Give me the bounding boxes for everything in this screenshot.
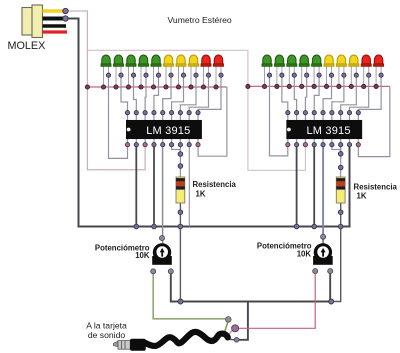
node: jack tip (green) terminal — [226, 317, 232, 323]
node: MOLEX 12V tap — [63, 8, 68, 13]
node: left pot leg A — [151, 269, 156, 274]
wire: IC pin stubs — [127, 113, 129, 121]
LED D19 (red) right bank — [361, 55, 371, 86]
wire: left LED2 cathode to left IC top pin — [121, 75, 128, 113]
wire: green pigtail at jack cable end — [224, 321, 229, 336]
node: right pot wiper — [321, 234, 326, 239]
wire: left pot right leg to lower ground rail — [171, 273, 181, 302]
svg-text:1K: 1K — [196, 190, 206, 199]
wire: left resistor lower lead to ground bus and down — [179, 203, 181, 302]
wire: left audio channel (green) from jack tip to left pot — [153, 273, 227, 319]
LED D1 (green) left bank — [101, 55, 111, 87]
wire: right IC pin 9 mode to bus right end — [358, 86, 390, 156]
wire: right LED9 cathode to right IC top pin — [349, 75, 368, 113]
op-amp/IC U1 LM3915 left — [126, 120, 201, 139]
cable to sound card — [146, 332, 228, 346]
svg-text:Resistencia: Resistencia — [354, 183, 398, 192]
wire: left LED9 cathode to left IC top pin — [189, 75, 208, 113]
node: right pot leg B — [328, 269, 333, 274]
LED D18 (yellow) right bank — [349, 55, 359, 86]
node: MOLEX GND tap — [63, 16, 68, 21]
junctions: LED cathode vias — [106, 73, 110, 77]
wire: right pot right leg to lower ground rail — [329, 273, 331, 302]
LED D7 (yellow) left bank — [176, 55, 186, 87]
LED D14 (green) right bank — [299, 55, 309, 86]
svg-text:10K: 10K — [135, 251, 150, 260]
wire: left LED10 cathode to left IC top pin — [198, 75, 221, 113]
connector J1 MOLEX power — [22, 5, 67, 38]
wire: right LED6 cathode to right IC top pin — [323, 75, 331, 113]
svg-text:Resistencia: Resistencia — [193, 180, 237, 189]
LED D13 (green) right bank — [287, 55, 297, 86]
wire: right LED anode bus (V+) — [248, 85, 390, 87]
junctions: right anode bus — [246, 84, 250, 88]
svg-text:1K: 1K — [357, 192, 367, 201]
wire: right LED7 cathode to right IC top pin — [332, 75, 344, 113]
wire: left LED3 cathode to left IC top pin — [134, 75, 137, 113]
wire: ground drop to jack sleeve — [239, 302, 248, 340]
wire: left IC pin 7 REFout to resistor — [179, 146, 181, 178]
node: left pot leg B — [168, 269, 173, 274]
wire: right LED2 cathode to right IC top pin — [282, 75, 288, 113]
wire: right LED4 cathode to right IC top pin — [305, 75, 306, 113]
svg-text:LM 3915: LM 3915 — [306, 125, 350, 137]
wire: V+ from MOLEX 12V to left IC pin 3 (x=87.4 riser) — [67, 11, 145, 170]
node: left pot wiper — [160, 236, 165, 241]
node: jack ring (magenta) terminal — [232, 325, 239, 332]
wire: right IC pin 7 REFout to resistor — [340, 146, 342, 178]
wire: right LED1 cathode to right IC pin 1 — [270, 75, 288, 156]
wire: lower ground rail y=301.5 — [181, 301, 332, 303]
wire: left IC pin 2 V- to ground bus — [135, 146, 137, 227]
junctions: left anode bus — [85, 85, 89, 89]
svg-text:10K: 10K — [297, 250, 312, 259]
LED D6 (yellow) left bank — [164, 55, 174, 87]
svg-text:Vumetro Estéreo: Vumetro Estéreo — [168, 15, 232, 25]
audio jack 3.5mm plug — [114, 339, 146, 351]
LED D4 (green) left bank — [139, 55, 149, 87]
wire: left LED4 cathode to left IC top pin — [144, 75, 147, 113]
LED D11 (green) right bank — [262, 55, 272, 86]
wire: right LED3 cathode to right IC top pin — [294, 75, 296, 113]
junctions: resistor nodes — [178, 152, 183, 157]
node: right pot leg A — [313, 269, 318, 274]
LED D20 (red) right bank — [374, 55, 384, 86]
junctions: ground bus — [134, 224, 139, 229]
wire: left IC pin 8 to ground bus — [188, 146, 190, 227]
wire: right LED8 cathode to right IC top pin — [341, 75, 357, 113]
wire: left LED8 cathode to left IC top pin — [180, 75, 196, 113]
wire: sleeve pigtail at jack cable end — [229, 338, 234, 341]
resistor R1 1K (left) — [176, 177, 185, 203]
wire: right LED10 cathode to right IC top pin — [358, 75, 381, 113]
wire: V+ branch y=50 to right bank riser and right IC pin 3 — [87, 50, 305, 170]
wire: right resistor lower lead to ground bus and down — [331, 203, 341, 302]
wire: left IC pin 9 mode to bus right end — [198, 87, 227, 156]
wire: right IC pin 5 signal input to right pot wiper — [322, 146, 324, 245]
LED D10 (red) left bank — [214, 55, 224, 87]
LED D2 (green) left bank — [114, 55, 124, 87]
wire: right IC pin 2 V- to ground bus — [296, 146, 298, 227]
resistor R2 1K (right) — [336, 177, 345, 203]
wire: left IC pin 5 signal input to left pot wiper — [162, 146, 164, 245]
svg-text:MOLEX: MOLEX — [8, 40, 46, 52]
wire: ring pigtail at jack cable end — [229, 330, 233, 334]
wire: left LED7 cathode to left IC top pin — [172, 75, 184, 113]
wire: left LED6 cathode to left IC top pin — [163, 75, 171, 113]
wire: left LED5 cathode to left IC top pin — [154, 75, 159, 113]
LED D17 (yellow) right bank — [336, 55, 346, 86]
wire: left LED anode bus (V+) — [87, 86, 227, 88]
LED D8 (yellow) left bank — [189, 55, 199, 87]
node: jack sleeve terminal — [234, 338, 239, 343]
wire: right LED5 cathode to right IC top pin — [314, 75, 319, 113]
op-amp/IC U2 LM3915 right — [287, 120, 362, 139]
LED D9 (red) left bank — [201, 55, 211, 87]
LED D5 (green) left bank — [151, 55, 161, 87]
wire: ground from MOLEX black to ground bus y=226.5 — [67, 19, 350, 227]
LED D15 (green) right bank — [312, 55, 322, 86]
LED D3 (green) left bank — [126, 55, 136, 87]
wire: right IC pin 4 RLO to ground bus — [313, 146, 315, 227]
wire: left LED1 cathode to left IC pin 1 — [109, 75, 128, 158]
svg-text:LM 3915: LM 3915 — [146, 125, 190, 137]
wire: right audio channel (magenta) from jack ring to right pot — [236, 273, 315, 329]
wire: left IC pin 6 RHI jog to resistor node — [172, 146, 181, 154]
potentiometer RV1 10K (left) — [152, 243, 172, 265]
LED D12 (green) right bank — [274, 55, 284, 86]
wire: left IC pin 4 RLO to ground bus — [153, 146, 155, 227]
wire: right IC pin 6 RHI jog to resistor node — [332, 146, 341, 154]
LED D16 (yellow) right bank — [324, 55, 334, 86]
svg-text:de sonido: de sonido — [88, 330, 125, 340]
potentiometer RV2 10K (right) — [313, 243, 333, 265]
junctions: IC pins — [125, 111, 129, 115]
